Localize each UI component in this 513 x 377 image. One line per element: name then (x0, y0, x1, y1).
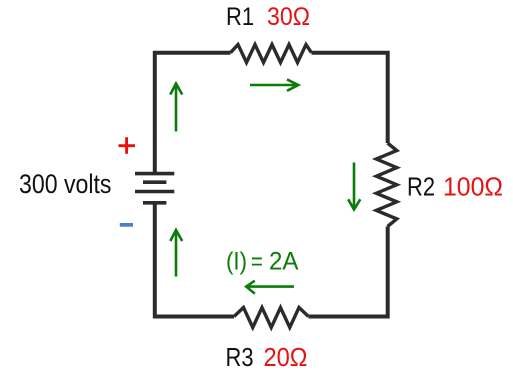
svg-text:R1: R1 (226, 3, 254, 31)
svg-text:2A: 2A (269, 248, 299, 275)
svg-text:20Ω: 20Ω (264, 342, 308, 372)
svg-text:R3: R3 (226, 342, 254, 372)
svg-text:100Ω: 100Ω (443, 172, 503, 202)
svg-text:300 volts: 300 volts (19, 169, 112, 199)
svg-text:R2: R2 (407, 172, 435, 202)
svg-text:=: = (251, 248, 263, 275)
svg-text:(I): (I) (226, 248, 247, 275)
svg-text:30Ω: 30Ω (267, 3, 310, 31)
